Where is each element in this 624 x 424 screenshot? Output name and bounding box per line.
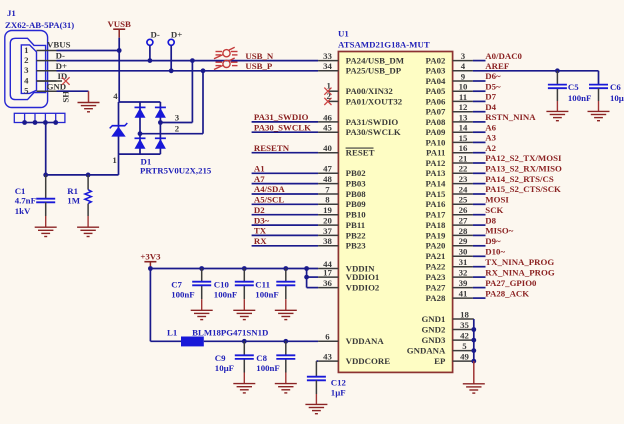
svg-text:VDDANA: VDDANA <box>346 336 385 346</box>
svg-text:AREF: AREF <box>485 61 509 71</box>
wire stub net PA15_S2_CTS/SCK <box>473 193 486 195</box>
svg-text:A4/SDA: A4/SDA <box>254 184 285 194</box>
svg-text:A2: A2 <box>485 143 496 153</box>
wire VDDIO bus vertical <box>306 269 308 288</box>
junction VDDIO1 <box>304 275 309 280</box>
wire stub net D9~ <box>473 245 486 247</box>
svg-text:D-: D- <box>56 51 65 61</box>
diode D1-A lower <box>135 137 146 139</box>
ground at C6 <box>588 111 610 120</box>
svg-text:RSTN_NINA: RSTN_NINA <box>485 112 536 122</box>
U1 pin 3 PA02 stub <box>453 60 473 62</box>
svg-text:R1: R1 <box>67 186 78 196</box>
svg-text:D+: D+ <box>56 61 67 71</box>
diode D1-B upper <box>155 106 166 108</box>
capacitor C1 <box>45 175 47 199</box>
svg-text:PA16: PA16 <box>426 199 446 209</box>
wire to L1 <box>150 340 181 342</box>
svg-text:1µF: 1µF <box>331 387 346 397</box>
U1 pin 44 VDDIN stub <box>318 268 338 270</box>
svg-text:3: 3 <box>24 65 29 75</box>
svg-text:GNDANA: GNDANA <box>407 346 446 356</box>
svg-text:4: 4 <box>24 75 29 85</box>
wire L1 to VDDANA <box>204 340 318 342</box>
svg-text:3: 3 <box>175 112 180 122</box>
capacitor C9 <box>243 341 245 355</box>
wire stub net RX_NINA_PROG <box>473 276 486 278</box>
wire net RX to U1 <box>252 245 319 247</box>
svg-text:PB08: PB08 <box>346 189 367 199</box>
svg-text:PB22: PB22 <box>346 230 367 240</box>
U1 pin 18 GND1 stub <box>453 318 474 320</box>
capacitor C10 <box>243 269 245 282</box>
U1 pin 46 PA31/SWDIO stub <box>318 121 338 123</box>
svg-text:PA11: PA11 <box>426 148 445 158</box>
svg-text:PA14: PA14 <box>426 179 446 189</box>
U1 pin 10 PA05 stub <box>453 90 473 92</box>
svg-text:5: 5 <box>462 341 467 351</box>
wire stub net RSTN_NINA <box>473 121 486 123</box>
svg-text:20: 20 <box>323 216 332 226</box>
junction D1 pin2 tap <box>138 131 143 136</box>
svg-text:A0/DAC0: A0/DAC0 <box>485 51 522 61</box>
no-connect X on J1 ID pin <box>37 80 63 82</box>
svg-text:BLM18PG471SN1D: BLM18PG471SN1D <box>192 327 268 337</box>
svg-text:PA27_GPIO0: PA27_GPIO0 <box>485 278 537 288</box>
wire D- test point stub <box>149 45 151 60</box>
junction at C5 <box>555 68 560 73</box>
wire stub net A0/DAC0 <box>473 60 486 62</box>
svg-text:1: 1 <box>24 45 28 55</box>
ground at U1 GND bus <box>463 384 485 393</box>
svg-text:5: 5 <box>24 86 29 96</box>
svg-text:PA23: PA23 <box>426 272 446 282</box>
svg-text:A1: A1 <box>254 164 265 174</box>
wire stub net PA12_S2_TX/MOSI <box>473 162 486 164</box>
svg-text:D4: D4 <box>485 102 496 112</box>
junction R1 node <box>86 173 91 178</box>
wire stub net D5~ <box>473 90 486 92</box>
wire net D3~ to U1 <box>252 224 319 226</box>
wire D1 pin 2 to D+ <box>140 133 203 135</box>
ground at R1 <box>77 227 99 236</box>
U1 pin 39 PA27 stub <box>453 287 473 289</box>
wire shield down to C1 node <box>45 123 47 175</box>
svg-text:PA07: PA07 <box>426 107 446 117</box>
wire net D2 to U1 <box>252 214 319 216</box>
wire D1 bottom rail <box>119 153 161 155</box>
capacitor C7 <box>201 269 203 282</box>
U1 pin 6 VDDANA stub <box>318 340 338 342</box>
wire D1 branch B <box>159 102 161 154</box>
svg-text:8: 8 <box>325 195 330 205</box>
svg-text:15: 15 <box>459 133 468 143</box>
svg-text:SH: SH <box>61 91 71 103</box>
svg-text:PA06: PA06 <box>426 96 446 106</box>
svg-text:4: 4 <box>113 91 118 101</box>
wire D1 pin 1 down to C1/R1 node <box>118 154 120 175</box>
svg-text:2: 2 <box>326 91 331 101</box>
RESET overline <box>346 147 374 149</box>
svg-text:100nF: 100nF <box>255 290 278 300</box>
wire GND bus vertical <box>473 319 475 361</box>
svg-text:39: 39 <box>459 278 468 288</box>
wire net A4/SDA to U1 <box>252 193 319 195</box>
wire stub net D6~ <box>473 80 486 82</box>
resistor R1 <box>87 175 89 190</box>
svg-text:PA03: PA03 <box>426 66 446 76</box>
svg-text:J1: J1 <box>7 8 16 18</box>
U1 pin 23 PA14 stub <box>453 183 473 185</box>
wire D1 top rail <box>119 101 161 103</box>
wire net PA31_SWDIO to U1 <box>252 121 319 123</box>
svg-text:RESETN: RESETN <box>254 143 290 153</box>
svg-text:100nF: 100nF <box>214 290 237 300</box>
svg-text:A3: A3 <box>485 133 496 143</box>
svg-text:USB_P: USB_P <box>245 61 273 71</box>
U1 pin 47 PB02 stub <box>318 172 338 174</box>
svg-text:ZX62-AB-5PA(31): ZX62-AB-5PA(31) <box>5 20 74 30</box>
U1 pin 16 PA11 stub <box>453 152 473 154</box>
svg-text:2: 2 <box>24 55 29 65</box>
svg-text:TX: TX <box>254 226 267 236</box>
svg-text:38: 38 <box>323 236 332 246</box>
U1 pin 27 PA18 stub <box>453 224 473 226</box>
U1 pin 40 RESET stub <box>318 152 338 154</box>
svg-text:1: 1 <box>112 155 116 165</box>
svg-text:PB11: PB11 <box>346 220 366 230</box>
ground at C7 <box>191 310 213 319</box>
svg-text:21: 21 <box>459 153 468 163</box>
svg-text:42: 42 <box>460 331 469 341</box>
svg-text:47: 47 <box>323 164 332 174</box>
svg-text:ATSAMD21G18A-MUT: ATSAMD21G18A-MUT <box>338 40 430 50</box>
svg-text:1kV: 1kV <box>15 206 31 216</box>
wire stub net A2 <box>473 152 486 154</box>
U1 pin 45 PA30/SWCLK stub <box>318 131 338 133</box>
svg-text:6: 6 <box>325 332 330 342</box>
wire stub net TX_NINA_PROG <box>473 266 486 268</box>
U1 pin 28 PA19 stub <box>453 234 473 236</box>
wire stub net A6 <box>473 131 486 133</box>
diode D1-A upper <box>135 106 146 108</box>
wire stub net D7 <box>473 100 486 102</box>
svg-text:PA22: PA22 <box>426 262 446 272</box>
U1 pin 42 GND3 stub <box>453 339 474 341</box>
svg-text:PA15: PA15 <box>426 189 446 199</box>
svg-text:100nF: 100nF <box>256 363 279 373</box>
wire net A5/SCL to U1 <box>252 203 319 205</box>
svg-text:13: 13 <box>459 112 468 122</box>
wire VBUS from J1 pin1 to VUSB junction <box>57 50 120 52</box>
svg-text:40: 40 <box>323 143 332 153</box>
U1 pin 25 PA16 stub <box>453 203 473 205</box>
U1 pin 8 PB09 stub <box>318 203 338 205</box>
ground at C1 <box>35 227 57 236</box>
U1 pin 35 GND2 stub <box>453 329 474 331</box>
svg-text:PA30/SWCLK: PA30/SWCLK <box>346 127 401 137</box>
svg-text:PA04: PA04 <box>426 76 446 86</box>
svg-text:C11: C11 <box>255 280 270 290</box>
svg-text:D6~: D6~ <box>485 71 501 81</box>
svg-text:PA27: PA27 <box>426 283 446 293</box>
svg-text:D3~: D3~ <box>254 215 270 225</box>
U1 pin 17 VDDIO1 stub <box>318 276 338 278</box>
svg-text:33: 33 <box>323 51 332 61</box>
svg-text:PA25/USB_DP: PA25/USB_DP <box>346 66 402 76</box>
svg-text:28: 28 <box>459 226 468 236</box>
svg-text:29: 29 <box>459 236 468 246</box>
svg-text:A7: A7 <box>254 174 265 184</box>
wire VDDIO1 <box>307 276 319 278</box>
svg-text:10µF: 10µF <box>215 363 234 373</box>
zener diode of D1 <box>110 123 128 128</box>
wire stub net D10~ <box>473 255 486 257</box>
diode D1-B lower <box>155 137 166 139</box>
svg-text:16: 16 <box>459 143 468 153</box>
svg-text:C1: C1 <box>15 186 26 196</box>
svg-text:D7: D7 <box>485 92 496 102</box>
wire VDDIN rail <box>150 268 318 270</box>
ground at C5 <box>546 111 568 120</box>
wire VDDCORE to C12 <box>316 360 318 362</box>
U1 pin 4 PA03 stub <box>453 70 473 72</box>
svg-text:24: 24 <box>459 184 468 194</box>
wire AREF to C5/C6 <box>473 70 599 72</box>
svg-text:36: 36 <box>323 278 332 288</box>
svg-text:31: 31 <box>459 257 468 267</box>
junction D+ <box>169 68 174 73</box>
U1 pin 49 EP stub <box>453 360 474 362</box>
U1 pin 11 PA06 stub <box>453 100 473 102</box>
junction C10 <box>242 266 247 271</box>
wire D1 pin 3 to D- <box>160 122 192 124</box>
U1 pin 38 PB23 stub <box>318 245 338 247</box>
U1 pin 48 PB03 stub <box>318 183 338 185</box>
svg-text:19: 19 <box>323 205 332 215</box>
svg-text:30: 30 <box>459 247 468 257</box>
connector J1 pin stubs <box>37 51 57 92</box>
svg-text:46: 46 <box>323 112 332 122</box>
svg-text:9: 9 <box>461 71 466 81</box>
wire stub net PA14_S2_RTS/CS <box>473 183 486 185</box>
svg-text:VDDCORE: VDDCORE <box>346 356 391 366</box>
wire +3V3 down to L1 <box>149 269 151 342</box>
svg-text:PA13_S2_RX/MISO: PA13_S2_RX/MISO <box>485 164 562 174</box>
svg-text:PA00/XIN32: PA00/XIN32 <box>346 86 394 96</box>
svg-text:L1: L1 <box>167 327 177 337</box>
junction C11 <box>283 266 288 271</box>
svg-text:D5~: D5~ <box>485 81 501 91</box>
wire stub net MISO~ <box>473 234 486 236</box>
svg-text:C5: C5 <box>568 82 579 92</box>
svg-text:10: 10 <box>459 82 468 92</box>
svg-text:100nF: 100nF <box>171 290 194 300</box>
svg-text:3: 3 <box>461 51 466 61</box>
svg-text:PA09: PA09 <box>426 127 446 137</box>
svg-text:26: 26 <box>459 205 468 215</box>
U1 pin 43 VDDCORE stub <box>318 360 338 362</box>
wire net A1 to U1 <box>252 172 319 174</box>
U1 pin 13 PA08 stub <box>453 121 473 123</box>
U1 pin 37 PB22 stub <box>318 234 338 236</box>
wire stub net SCK <box>473 214 486 216</box>
wire stub net PA28_ACK <box>473 297 486 299</box>
svg-text:ID: ID <box>58 71 68 81</box>
wire stub net PA13_S2_RX/MISO <box>473 172 486 174</box>
U1 pin 32 PA23 stub <box>453 276 473 278</box>
wire D1 branch A <box>139 102 141 154</box>
svg-text:SCK: SCK <box>485 205 503 215</box>
svg-text:PA10: PA10 <box>426 137 446 147</box>
svg-text:41: 41 <box>459 289 468 299</box>
junction dots on shield bus <box>22 120 27 125</box>
U1 pin 1 PA00/XIN32 (no connect) <box>328 90 339 92</box>
wire J1 GND pin to ground <box>57 90 89 92</box>
svg-text:D9~: D9~ <box>485 236 501 246</box>
svg-text:PA21: PA21 <box>426 251 446 261</box>
U1 pin 12 PA07 stub <box>453 111 473 113</box>
svg-text:PB23: PB23 <box>346 241 367 251</box>
ground at J1 GND <box>78 103 100 112</box>
svg-text:PA28: PA28 <box>426 293 446 303</box>
svg-text:PA12: PA12 <box>426 158 446 168</box>
svg-text:GND3: GND3 <box>421 335 446 345</box>
svg-text:U1: U1 <box>338 28 349 38</box>
svg-text:45: 45 <box>323 123 332 133</box>
svg-text:PA13: PA13 <box>426 168 446 178</box>
svg-text:27: 27 <box>459 216 468 226</box>
wire down to C6 <box>598 71 600 85</box>
svg-text:PA08: PA08 <box>426 117 446 127</box>
svg-text:4: 4 <box>461 61 466 71</box>
svg-text:TX_NINA_PROG: TX_NINA_PROG <box>485 257 554 267</box>
svg-text:VDDIO1: VDDIO1 <box>346 272 380 282</box>
U1 pin 9 PA04 stub <box>453 80 473 82</box>
wire VDDIO2 <box>307 287 319 289</box>
wire stub net D8 <box>473 224 486 226</box>
svg-text:PA02: PA02 <box>426 56 446 66</box>
wire D1 left branch (zener) <box>118 102 120 154</box>
svg-text:GND1: GND1 <box>421 314 445 324</box>
junction C9 <box>242 339 247 344</box>
junction VUSB/VBUS/D1 <box>117 48 122 53</box>
svg-text:RX_NINA_PROG: RX_NINA_PROG <box>485 267 555 277</box>
U1 pin 20 PB11 stub <box>318 224 338 226</box>
svg-text:PA12_S2_TX/MOSI: PA12_S2_TX/MOSI <box>485 153 562 163</box>
svg-text:23: 23 <box>459 174 468 184</box>
svg-text:MISO~: MISO~ <box>485 226 513 236</box>
svg-text:A6: A6 <box>485 122 496 132</box>
wire shield bus <box>25 122 56 124</box>
junction C7 <box>199 266 204 271</box>
svg-text:PA31/SWDIO: PA31/SWDIO <box>346 117 399 127</box>
svg-text:PA05: PA05 <box>426 86 446 96</box>
svg-text:PB09: PB09 <box>346 199 367 209</box>
wire net TX to U1 <box>252 234 319 236</box>
U1 pin 30 PA21 stub <box>453 255 473 257</box>
svg-text:D8: D8 <box>485 215 496 225</box>
U1 pin 36 VDDIO2 stub <box>318 287 338 289</box>
U1 pin 33 PA24/USB_DM stub <box>318 60 338 62</box>
svg-text:1M: 1M <box>67 196 80 206</box>
svg-text:C12: C12 <box>331 378 347 388</box>
connector J1 ZX62-AB-5PA(31) USB mini-B shell <box>5 31 48 108</box>
ground at C9 <box>233 384 255 393</box>
ground at C8 <box>275 384 297 393</box>
svg-text:100nF: 100nF <box>568 93 591 103</box>
svg-text:25: 25 <box>459 195 468 205</box>
U1 pin 26 PA17 stub <box>453 214 473 216</box>
svg-text:D2: D2 <box>254 205 265 215</box>
svg-text:18: 18 <box>460 309 469 319</box>
svg-text:12: 12 <box>459 102 468 112</box>
svg-text:43: 43 <box>323 352 332 362</box>
U1 pin 31 PA22 stub <box>453 266 473 268</box>
svg-text:PB03: PB03 <box>346 179 367 189</box>
U1 pin 22 PA13 stub <box>453 172 473 174</box>
wire GND bus to ground <box>473 361 475 384</box>
svg-text:C9: C9 <box>215 353 226 363</box>
svg-text:RESET: RESET <box>346 148 375 158</box>
ground at C10 <box>233 310 255 319</box>
svg-text:PA28_ACK: PA28_ACK <box>485 288 529 298</box>
svg-text:32: 32 <box>459 268 468 278</box>
wire stub net PA27_GPIO0 <box>473 287 486 289</box>
svg-text:PA24/USB_DM: PA24/USB_DM <box>346 56 405 66</box>
U1 pin 21 PA12 stub <box>453 162 473 164</box>
svg-text:VDDIO2: VDDIO2 <box>346 283 380 293</box>
svg-text:USB_N: USB_N <box>245 51 274 61</box>
U1 pin 19 PB10 stub <box>318 214 338 216</box>
svg-text:PA31_SWDIO: PA31_SWDIO <box>254 112 309 122</box>
wire D+ test point stub <box>170 45 172 70</box>
svg-text:PA01/XOUT32: PA01/XOUT32 <box>346 96 403 106</box>
svg-text:D-: D- <box>151 30 160 40</box>
differential pair symbol USB_P <box>214 58 238 70</box>
junctions on GND bus <box>471 327 476 332</box>
svg-text:7: 7 <box>325 184 330 194</box>
wire stub net D4 <box>473 111 486 113</box>
U1 pin 7 PB08 stub <box>318 193 338 195</box>
wire VUSB junction down to D1 pin 4 <box>118 51 120 103</box>
capacitor C6 <box>589 85 608 89</box>
junction D1 pin3 tap <box>158 120 163 125</box>
svg-text:PA18: PA18 <box>426 220 446 230</box>
svg-text:2: 2 <box>175 124 180 134</box>
ferrite bead L1 <box>181 337 204 347</box>
wire USB_N / D- from J1 pin2 to U1 pin 33 <box>57 60 319 62</box>
wire VUSB stem to VBUS wire <box>118 38 120 51</box>
differential pair symbol USB_N <box>214 47 238 59</box>
svg-text:GND2: GND2 <box>421 324 446 334</box>
junction D- <box>148 58 153 63</box>
U1 pin 34 PA25/USB_DP stub <box>318 70 338 72</box>
junction VDDIO bus <box>304 266 309 271</box>
svg-text:D10~: D10~ <box>485 247 505 257</box>
wire net A7 to U1 <box>252 183 319 185</box>
wire USB_P / D+ from J1 pin3 to U1 pin 34 <box>57 70 319 72</box>
svg-text:C7: C7 <box>171 280 182 290</box>
wire stub net MOSI <box>473 203 486 205</box>
op-amp U1 body (microcontroller ATSAMD21G18A-MUT) <box>338 52 452 373</box>
U1 pin 15 PA10 stub <box>453 141 473 143</box>
svg-text:PA20: PA20 <box>426 241 446 251</box>
svg-text:4.7nF: 4.7nF <box>15 196 36 206</box>
svg-text:10µF: 10µF <box>610 93 624 103</box>
svg-text:PA17: PA17 <box>426 210 446 220</box>
wire net PA30_SWCLK to U1 <box>252 131 319 133</box>
